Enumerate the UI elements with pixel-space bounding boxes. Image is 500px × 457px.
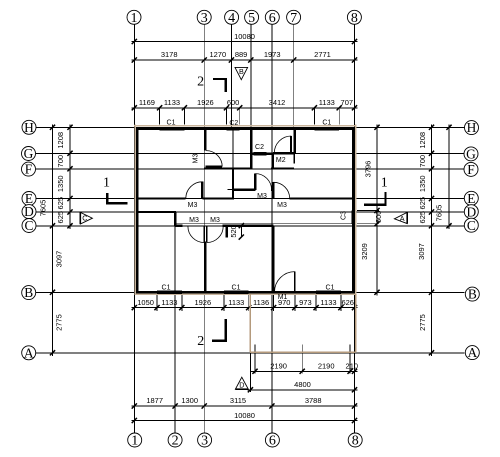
svg-text:600: 600: [374, 211, 383, 224]
axis circle A left: [22, 345, 36, 360]
svg-text:D: D: [24, 204, 34, 219]
svg-text:5: 5: [248, 11, 255, 26]
svg-text:2: 2: [197, 75, 204, 90]
svg-text:C: C: [82, 214, 87, 223]
right outer dimension line: [448, 124, 450, 229]
svg-text:3: 3: [201, 434, 208, 449]
svg-text:1350: 1350: [56, 175, 65, 192]
section mark 2 top: [213, 79, 226, 92]
svg-text:625: 625: [56, 211, 65, 224]
interior wall axis F west: [204, 167, 252, 169]
svg-text:C1: C1: [322, 119, 331, 126]
svg-text:707: 707: [341, 98, 354, 107]
extension line: [313, 108, 315, 124]
axis circle E right: [464, 191, 478, 206]
svg-text:3097: 3097: [55, 251, 64, 268]
extension line C3 window top: [357, 209, 379, 211]
svg-text:3209: 3209: [360, 243, 369, 260]
grid axis C horizontal: [36, 225, 465, 227]
axis circle 8 bottom: [348, 433, 362, 449]
exterior wall top: [136, 127, 355, 129]
window C1 bottom-left: [157, 291, 182, 294]
interior wall axis6 lower: [272, 226, 274, 292]
svg-text:1133: 1133: [320, 298, 336, 307]
svg-text:1926: 1926: [194, 298, 211, 307]
axis circle 3 bottom: [198, 433, 212, 449]
grid axis H horizontal: [36, 126, 465, 128]
top dimension line second row: [131, 59, 357, 61]
interior wall axis7 upper: [294, 128, 296, 154]
triangle marker A right: [394, 212, 407, 223]
axis circle 1 top: [127, 10, 141, 26]
svg-text:1: 1: [381, 175, 388, 190]
grid axis 3 vertical: [203, 24, 205, 433]
svg-text:M3: M3: [277, 202, 287, 209]
svg-text:C: C: [25, 218, 34, 233]
extension line: [349, 345, 351, 374]
extension line: [248, 295, 250, 311]
svg-text:700: 700: [56, 155, 65, 168]
svg-text:H: H: [467, 120, 477, 135]
svg-text:625: 625: [418, 211, 427, 224]
window C1 bottom-right: [316, 291, 341, 294]
svg-text:3412: 3412: [269, 98, 286, 107]
axis circle H right: [465, 120, 479, 135]
interior wall between bottom rooms: [204, 242, 206, 293]
axis circle B right: [465, 287, 479, 302]
partition line axis4 upper: [232, 129, 234, 169]
axis circle C left: [22, 218, 36, 233]
axis circle 6 top: [265, 10, 279, 26]
svg-text:M3: M3: [193, 154, 200, 164]
window C2 top: [227, 127, 240, 130]
svg-text:1: 1: [131, 434, 138, 449]
svg-text:1208: 1208: [56, 132, 65, 149]
svg-text:10080: 10080: [234, 411, 255, 420]
svg-text:700: 700: [418, 155, 427, 168]
svg-text:1350: 1350: [418, 175, 427, 192]
extension line: [226, 108, 228, 124]
grid axis 4 vertical: [230, 24, 232, 128]
svg-text:625: 625: [56, 197, 65, 210]
exterior wall bottom: [136, 291, 355, 293]
extension line: [239, 108, 241, 124]
svg-text:889: 889: [235, 50, 248, 59]
svg-text:A: A: [467, 345, 477, 360]
svg-text:G: G: [24, 146, 34, 161]
svg-text:3788: 3788: [305, 396, 322, 405]
svg-text:A: A: [400, 214, 405, 223]
extension line: [249, 353, 251, 392]
extension line: [301, 345, 303, 374]
svg-text:2775: 2775: [55, 314, 64, 331]
interior wall axis4: [232, 169, 234, 200]
svg-text:10080: 10080: [234, 32, 255, 41]
svg-text:C3: C3: [341, 211, 348, 220]
svg-text:2190: 2190: [318, 362, 335, 371]
extension line C3 window bottom: [357, 223, 379, 225]
terrace dimension line 4800: [248, 389, 358, 391]
axis circle G left: [22, 146, 36, 161]
svg-text:1300: 1300: [181, 396, 198, 405]
right middle dimension line: [431, 124, 433, 355]
svg-text:1270: 1270: [209, 50, 226, 59]
exterior wall right: [352, 128, 354, 294]
svg-text:600: 600: [227, 98, 240, 107]
window C1 top-right: [314, 127, 339, 130]
svg-text:973: 973: [299, 298, 312, 307]
extension line: [223, 295, 225, 311]
grid axis F horizontal: [36, 168, 465, 170]
extension line: [254, 345, 256, 374]
grid axis 5 vertical: [250, 24, 252, 128]
svg-text:M2: M2: [276, 157, 286, 164]
svg-text:4: 4: [228, 11, 235, 26]
axis circle C right: [464, 218, 478, 233]
axis circle F right: [464, 162, 478, 177]
interior wall axis E middle: [202, 197, 234, 199]
svg-text:3115: 3115: [230, 396, 246, 405]
svg-text:G: G: [466, 147, 476, 162]
svg-text:1133: 1133: [161, 298, 177, 307]
svg-text:C1: C1: [232, 284, 241, 291]
left inner dimension line: [69, 124, 71, 229]
axis circle 2 bottom: [168, 433, 182, 449]
axis circle 8 top: [347, 10, 361, 26]
beige outline top: [134, 125, 356, 127]
svg-text:1: 1: [103, 176, 110, 191]
door M2: arc and leaf: [274, 136, 291, 153]
top dimension line third row: [131, 107, 357, 109]
stub wall 520: [226, 226, 228, 238]
terrace outline bottom: [250, 351, 356, 353]
interior wall G closet with window C2: [251, 152, 274, 154]
axis circle D left: [22, 204, 36, 219]
door M3 in y190 wall: leaf and arc: [255, 174, 271, 190]
grid axis 1 vertical: [133, 24, 135, 433]
grid axis E horizontal: [36, 198, 465, 200]
grid axis B horizontal: [36, 291, 465, 293]
grid axis 2 vertical: [174, 211, 176, 433]
extension line: [315, 295, 317, 311]
svg-text:B: B: [239, 67, 244, 76]
interior wall axis6 closet: [272, 154, 274, 170]
svg-text:M1: M1: [278, 294, 288, 301]
interior wall axis F east: [271, 167, 294, 169]
left outer dimension line: [52, 124, 54, 355]
interior wall axis E west: [136, 197, 186, 199]
interior wall G east M2: [273, 152, 294, 154]
bottom dimension line 10080: [131, 420, 357, 422]
axis circle H left: [22, 120, 36, 135]
extension line: [156, 295, 158, 311]
exterior wall left: [136, 128, 138, 294]
svg-text:7605: 7605: [39, 200, 48, 217]
entrance door M1: leaf and arc: [294, 272, 296, 292]
grid axis 8 vertical: [354, 24, 356, 433]
svg-text:1926: 1926: [197, 98, 214, 107]
svg-text:2: 2: [172, 434, 179, 449]
svg-text:520: 520: [229, 225, 238, 238]
svg-text:1133: 1133: [164, 98, 180, 107]
terrace outline left: [249, 294, 251, 352]
extension line: [338, 108, 340, 124]
grid axis A horizontal: [36, 352, 465, 354]
interior wall axis5: [250, 128, 252, 170]
axis circle G right: [464, 147, 478, 162]
interior wall y190 stub: [271, 189, 275, 191]
svg-text:210: 210: [346, 362, 359, 371]
extension line: [181, 295, 183, 311]
svg-text:626: 626: [341, 298, 354, 307]
counter line left of axis4 wall: [228, 188, 234, 190]
window C2 closet wall: [254, 152, 267, 155]
svg-text:3796: 3796: [364, 161, 373, 178]
interior wall axis3 upper: [204, 128, 206, 151]
beige outline bottom: [134, 293, 356, 295]
svg-text:6: 6: [269, 434, 276, 449]
svg-text:M3: M3: [189, 217, 199, 224]
svg-text:1136: 1136: [253, 298, 269, 307]
svg-text:6: 6: [269, 11, 276, 26]
interior wall axis2 vertical: [174, 212, 176, 226]
extension line: [294, 295, 296, 311]
triangle marker C left: [80, 212, 92, 224]
beige outline right: [355, 124, 357, 294]
axis circle F left: [22, 162, 36, 177]
triangle marker D bottom: [235, 377, 248, 389]
interior wall axis C east: [223, 225, 274, 227]
svg-text:1973: 1973: [264, 50, 281, 59]
svg-text:C2: C2: [255, 144, 264, 151]
door M3 hallway in E wall: leaf and arc: [186, 182, 203, 199]
dimension 520 with line: [240, 225, 242, 237]
terrace dimension line 2190 2190 210: [250, 370, 357, 372]
svg-text:7: 7: [290, 11, 297, 26]
svg-text:1877: 1877: [146, 396, 163, 405]
svg-text:8: 8: [352, 434, 359, 449]
svg-text:C1: C1: [162, 284, 171, 291]
bottom dimension line first row: [131, 307, 357, 309]
svg-text:1133: 1133: [228, 298, 244, 307]
grid axis G horizontal: [36, 152, 465, 154]
bottom dimension line 1877 1300 3115 3788: [131, 405, 357, 407]
window C1 bottom-middle: [224, 291, 249, 294]
svg-text:625: 625: [418, 197, 427, 210]
window C1 top-left: [160, 127, 185, 130]
svg-text:F: F: [467, 162, 474, 177]
top dimension line 10080: [131, 41, 357, 43]
interior wall axis D: [136, 211, 176, 213]
svg-text:1050: 1050: [137, 298, 154, 307]
svg-text:3: 3: [201, 11, 208, 26]
svg-text:M3: M3: [210, 217, 220, 224]
axis circle 4 top: [225, 10, 239, 26]
ledge line above corridor south wall: [176, 223, 353, 225]
svg-text:7605: 7605: [435, 205, 444, 222]
triangle marker B top: [235, 67, 248, 79]
extension line: [340, 295, 342, 311]
axis circle A right: [465, 345, 479, 360]
section mark 1 right: [364, 192, 386, 205]
svg-text:2775: 2775: [418, 314, 427, 331]
section mark 2 bottom: [212, 319, 226, 341]
svg-text:2771: 2771: [314, 50, 331, 59]
window C3 right wall: [352, 211, 355, 224]
axis circle B left: [22, 285, 36, 300]
axis circle 6 bottom: [265, 433, 279, 449]
terrace outline right: [355, 294, 357, 352]
svg-text:1208: 1208: [418, 132, 427, 149]
svg-text:3178: 3178: [161, 50, 178, 59]
right inner dimension line: [376, 124, 378, 295]
svg-text:F: F: [25, 162, 32, 177]
beige outline left: [134, 124, 136, 294]
axis circle 7 top: [287, 10, 301, 26]
svg-text:1169: 1169: [139, 98, 155, 107]
svg-text:A: A: [24, 345, 34, 360]
axis circle 5 top: [245, 10, 259, 26]
svg-text:B: B: [468, 287, 477, 302]
svg-text:C1: C1: [326, 284, 335, 291]
door M3 top room: leaf and arc: [206, 151, 222, 167]
svg-text:1: 1: [131, 11, 138, 26]
axis circle 1 bottom: [128, 433, 142, 449]
axis circle 3 top: [197, 10, 211, 26]
svg-text:M3: M3: [188, 202, 198, 209]
interior wall y190: [233, 189, 255, 191]
extension line: [273, 295, 275, 311]
interior wall axis E east: [290, 197, 355, 199]
extension line: [159, 108, 161, 124]
axis circle D right: [464, 204, 478, 219]
svg-text:1133: 1133: [319, 98, 335, 107]
svg-text:4800: 4800: [294, 380, 311, 389]
axis circle E left: [22, 191, 36, 206]
svg-text:C2: C2: [229, 120, 238, 127]
svg-text:8: 8: [351, 11, 358, 26]
svg-text:D: D: [239, 381, 244, 390]
grid axis 7 vertical: [293, 24, 295, 128]
svg-text:2190: 2190: [270, 362, 287, 371]
grid axis D horizontal: [36, 211, 465, 213]
svg-text:3097: 3097: [417, 243, 426, 260]
extension line: [183, 108, 185, 124]
svg-text:H: H: [24, 120, 34, 135]
svg-text:2: 2: [197, 334, 204, 349]
svg-text:B: B: [24, 285, 33, 300]
interior wall axis C west bit: [175, 225, 182, 227]
svg-text:C1: C1: [167, 120, 176, 127]
svg-text:M3: M3: [257, 193, 267, 200]
grid axis 6 vertical: [271, 24, 273, 433]
section mark 1 left: [107, 193, 127, 204]
svg-text:C: C: [467, 218, 476, 233]
door M3 in E wall east: leaf and arc: [274, 182, 290, 198]
twin doors M3 below corridor: two leaves and arcs: [203, 226, 205, 243]
